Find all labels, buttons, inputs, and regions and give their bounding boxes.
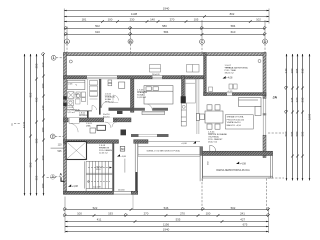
svg-text:102: 102	[256, 18, 261, 22]
svg-text:D: D	[264, 40, 267, 44]
svg-text:100: 100	[77, 211, 82, 215]
svg-text:C: C	[201, 40, 204, 44]
svg-text:430: 430	[35, 97, 39, 102]
svg-text:240x60: 240x60	[118, 190, 125, 192]
svg-text:610: 610	[231, 30, 236, 34]
svg-text:1: 1	[53, 56, 55, 60]
svg-text:546: 546	[164, 206, 169, 210]
svg-text:1265: 1265	[308, 113, 312, 120]
svg-text:O: O	[11, 123, 13, 127]
svg-text:545: 545	[58, 150, 63, 153]
svg-text:427: 427	[240, 218, 245, 222]
svg-text:502: 502	[231, 206, 236, 210]
svg-text:38,05 m2: 38,05 m2	[225, 72, 235, 74]
svg-text:220: 220	[295, 97, 299, 102]
svg-text:VRATA 90x210: VRATA 90x210	[227, 121, 242, 124]
svg-text:1156: 1156	[163, 223, 170, 227]
svg-text:+4,08: +4,08	[240, 162, 247, 165]
svg-text:360: 360	[41, 155, 45, 160]
svg-text:80x210: 80x210	[103, 117, 110, 119]
svg-text:590: 590	[29, 162, 33, 167]
svg-text:3: 3	[52, 175, 54, 179]
svg-text:270: 270	[170, 18, 175, 22]
svg-text:250: 250	[35, 63, 39, 68]
svg-text:584: 584	[164, 30, 169, 34]
svg-text:1.S.06: 1.S.06	[137, 89, 144, 91]
svg-text:1243: 1243	[22, 121, 26, 128]
svg-text:305: 305	[295, 68, 299, 73]
svg-text:SJENILO OD BRODSKOG PODA: SJENILO OD BRODSKOG PODA	[146, 150, 180, 153]
svg-text:+4,08: +4,08	[226, 77, 233, 80]
svg-text:+4,15: +4,15	[227, 91, 233, 93]
svg-text:HODNIK: HODNIK	[79, 115, 88, 117]
svg-text:380: 380	[35, 138, 39, 143]
svg-text:PROZOR 240x120: PROZOR 240x120	[227, 119, 245, 121]
svg-text:28,42 m2: 28,42 m2	[208, 141, 218, 143]
svg-text:240: 240	[41, 105, 45, 110]
svg-text:210: 210	[41, 62, 45, 67]
svg-text:11,30 m2: 11,30 m2	[105, 101, 115, 103]
svg-text:12,05 m2: 12,05 m2	[99, 152, 109, 154]
svg-text:590: 590	[284, 131, 288, 136]
svg-text:230: 230	[300, 97, 304, 102]
svg-text:1.S.05: 1.S.05	[105, 94, 112, 96]
svg-text:110: 110	[58, 144, 62, 147]
svg-text:585: 585	[290, 131, 294, 136]
svg-text:825: 825	[29, 92, 33, 97]
svg-text:310: 310	[300, 68, 304, 73]
svg-text:+4,08: +4,08	[72, 185, 79, 188]
svg-text:270: 270	[180, 211, 185, 215]
svg-text:802: 802	[230, 12, 235, 16]
svg-text:14,28 m2: 14,28 m2	[137, 97, 147, 99]
svg-text:230: 230	[130, 18, 135, 22]
svg-text:180: 180	[41, 127, 45, 132]
svg-text:NADVOJ +4,50: NADVOJ +4,50	[227, 124, 242, 127]
svg-text:1.S.04: 1.S.04	[208, 131, 215, 133]
svg-text:SD: SD	[121, 147, 125, 151]
svg-text:300: 300	[290, 68, 294, 73]
svg-text:610: 610	[95, 30, 100, 34]
svg-text:580: 580	[162, 24, 167, 28]
svg-text:585: 585	[300, 131, 304, 136]
svg-text:IZBA: IZBA	[86, 124, 91, 127]
svg-text:580: 580	[295, 131, 299, 136]
svg-text:1940: 1940	[163, 228, 170, 232]
svg-text:5,15 m2: 5,15 m2	[67, 112, 75, 114]
svg-text:RADNA NEPROHODNA PLOCA: RADNA NEPROHODNA PLOCA	[216, 169, 250, 172]
svg-text:100: 100	[108, 18, 113, 22]
svg-text:675: 675	[243, 223, 248, 227]
svg-text:241: 241	[240, 211, 245, 215]
svg-text:140: 140	[150, 18, 155, 22]
svg-text:1940: 1940	[163, 7, 170, 11]
svg-text:270: 270	[144, 211, 149, 215]
svg-text:JA: JA	[273, 96, 278, 100]
svg-text:2: 2	[52, 135, 54, 139]
svg-text:1.S.03: 1.S.03	[187, 77, 194, 79]
svg-text:355: 355	[35, 175, 39, 180]
svg-text:240x120: 240x120	[152, 74, 161, 76]
svg-text:SHEMA OTVORA: SHEMA OTVORA	[227, 116, 244, 119]
svg-text:193: 193	[108, 211, 113, 215]
svg-text:105: 105	[194, 18, 199, 22]
svg-text:181: 181	[82, 18, 87, 22]
svg-text:100: 100	[41, 183, 45, 188]
svg-text:340: 340	[284, 68, 288, 73]
svg-text:1138: 1138	[131, 12, 138, 16]
svg-text:+4,08: +4,08	[181, 143, 187, 145]
svg-text:584: 584	[231, 24, 236, 28]
svg-text:200: 200	[41, 83, 45, 88]
svg-text:502: 502	[95, 24, 100, 28]
svg-text:+4,08: +4,08	[120, 156, 126, 158]
svg-text:522: 522	[93, 206, 98, 210]
svg-text:100: 100	[206, 211, 211, 215]
svg-text:225: 225	[290, 97, 294, 102]
svg-text:535: 535	[176, 218, 181, 222]
svg-text:A: A	[66, 40, 69, 44]
svg-text:411: 411	[97, 218, 102, 222]
svg-text:B: B	[129, 40, 132, 44]
svg-text:1x4,5/28: 1x4,5/28	[93, 187, 102, 189]
